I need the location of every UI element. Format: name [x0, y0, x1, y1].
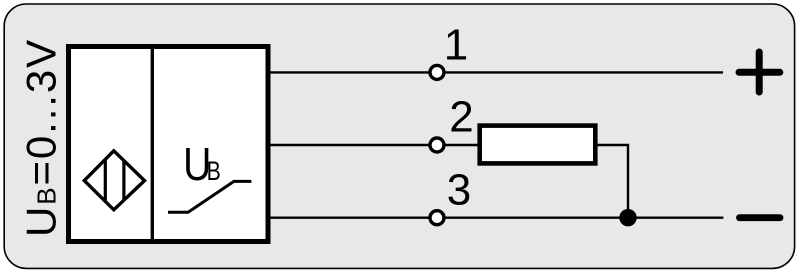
svg-text:UB=0...3V: UB=0...3V	[17, 38, 64, 237]
analog output ramp symbol	[168, 181, 251, 212]
proximity-sensor diamond symbol	[84, 151, 144, 210]
diamond inner line left	[104, 160, 107, 202]
svg-text:1: 1	[444, 21, 468, 70]
terminal 2	[430, 138, 444, 152]
sensor box divider	[151, 47, 154, 242]
junction dot	[619, 209, 636, 226]
diamond inner line right	[122, 161, 125, 200]
svg-text:B: B	[207, 156, 221, 186]
svg-text:2: 2	[449, 93, 473, 142]
sensor box U1	[69, 47, 269, 242]
load resistor R	[480, 126, 596, 164]
terminal 1	[430, 65, 444, 79]
wire 1 (to +)	[271, 71, 724, 73]
wire 2 (to resistor)	[271, 144, 480, 146]
minus symbol	[740, 214, 781, 221]
wire from resistor to junction	[595, 145, 628, 218]
svg-text:3: 3	[447, 166, 471, 215]
wire 3 (to -)	[271, 216, 724, 218]
plus symbol	[739, 69, 780, 76]
terminal 3	[430, 211, 444, 225]
